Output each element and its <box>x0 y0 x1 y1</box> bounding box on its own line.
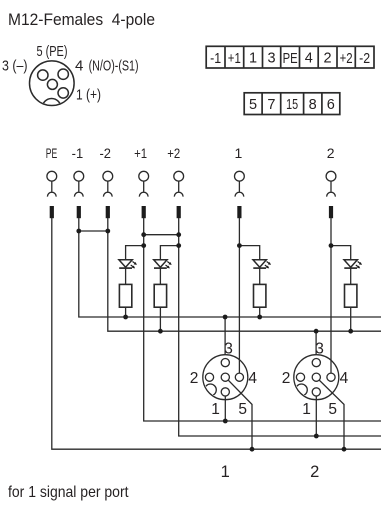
LED V2 emission arrows <box>166 262 172 269</box>
svg-text:1: 1 <box>302 401 311 418</box>
junction dot connector 2 pin 3 on bus <box>314 329 319 334</box>
svg-text:3: 3 <box>224 340 233 357</box>
junction dot -2 link <box>105 229 110 234</box>
terminal 2 plug fork <box>327 181 336 196</box>
junction dot connector 1 pin 3 on bus <box>223 315 228 320</box>
LED V4 <box>344 260 357 268</box>
connector 1 pin 1 circle <box>221 388 229 396</box>
svg-text:4: 4 <box>340 370 349 387</box>
svg-text:8: 8 <box>309 97 317 113</box>
svg-text:2: 2 <box>310 463 319 481</box>
legend pin bottom-right <box>58 88 68 98</box>
svg-text:+2: +2 <box>340 51 353 67</box>
svg-text:4: 4 <box>305 51 313 67</box>
terminal PE socket circle <box>47 171 57 181</box>
svg-text:5: 5 <box>238 401 247 418</box>
connector 2 body circle <box>294 355 339 400</box>
connector 2 wire into pin 4 <box>330 360 332 373</box>
LED V3 emission arrows <box>265 262 271 269</box>
connector 2 pin 1 wire <box>315 396 317 436</box>
terminal 2 socket circle <box>326 171 336 181</box>
resistor R1 <box>119 284 131 307</box>
legend pin center <box>47 79 57 89</box>
terminal PE plug fork <box>47 181 56 196</box>
link wire +1 to +2 y234.7 <box>144 234 179 236</box>
svg-text:7: 7 <box>267 97 275 113</box>
svg-text:+1: +1 <box>134 145 147 161</box>
LED V1 <box>119 260 132 268</box>
branch feed wire to LED V4 <box>331 246 351 260</box>
wire bus to connector 1 pin 3 <box>224 317 226 359</box>
terminal block row 2 labels <box>249 97 335 113</box>
wire LED V4 to resistor R4 <box>350 268 352 284</box>
wire -1 vertical + minus bus 1 y317 <box>79 218 381 317</box>
connector 2 pin 2 circle <box>296 373 304 381</box>
svg-text:PE: PE <box>283 51 298 67</box>
junction dot feed V1 <box>141 243 146 248</box>
junction dot feed V3 <box>237 243 242 248</box>
junction dot R2 on bus <box>158 329 163 334</box>
wire +1 vertical + plus bus 1 y421 <box>144 218 381 421</box>
legend pin top-right <box>58 69 68 79</box>
connector 1 pin 5 diagonal wire <box>228 380 252 449</box>
branch feed wire to LED V3 <box>239 246 259 260</box>
terminal +2 wire entry bar <box>177 206 181 218</box>
connector 2 pin 4 circle <box>327 373 335 381</box>
junction dot R1 on bus <box>123 315 128 320</box>
LED V2 <box>154 260 167 268</box>
terminal +1 socket circle <box>139 171 149 181</box>
svg-text:4: 4 <box>75 58 83 75</box>
svg-text:for 1 signal per port: for 1 signal per port <box>8 484 129 501</box>
link wire -1 to -2 y231 <box>79 230 108 232</box>
connector 1 pin 3 circle <box>221 359 229 367</box>
resistor R4 <box>345 284 357 307</box>
junction dot +2 link <box>176 232 181 237</box>
svg-text:1 (+): 1 (+) <box>76 87 101 104</box>
LED V1 emission arrows <box>131 262 137 269</box>
wire signal 1 vertical to connector 1 pin 4 <box>238 218 240 373</box>
svg-text:2: 2 <box>324 51 332 67</box>
legend keying notch <box>42 99 61 118</box>
svg-text:6: 6 <box>327 97 335 113</box>
svg-text:2: 2 <box>282 370 291 387</box>
connector 2 pin 3 circle <box>312 359 320 367</box>
terminal -2 plug fork <box>103 181 112 196</box>
terminal block row 2 <box>244 93 340 115</box>
M12 female legend connector face <box>30 61 75 106</box>
svg-text:PE: PE <box>46 145 58 161</box>
LED V3 <box>253 260 266 268</box>
wire resistor R4 to bus <box>350 307 352 331</box>
connector 1 keying notch <box>205 384 217 396</box>
terminal 1 wire entry bar <box>237 206 241 218</box>
svg-text:4: 4 <box>248 370 257 387</box>
wire bus to connector 2 pin 3 <box>315 331 317 358</box>
svg-text:3: 3 <box>268 51 276 67</box>
wire LED V3 to resistor R3 <box>259 268 261 284</box>
connector 1 pin 2 circle <box>205 373 213 381</box>
svg-text:15: 15 <box>286 97 298 113</box>
svg-text:5 (PE): 5 (PE) <box>37 43 68 60</box>
svg-text:1: 1 <box>211 401 220 418</box>
svg-text:3: 3 <box>315 340 324 357</box>
svg-text:+2: +2 <box>167 145 180 161</box>
svg-text:(N/O)-(S1): (N/O)-(S1) <box>89 58 139 75</box>
wire resistor R3 to bus <box>259 307 261 317</box>
svg-text:5: 5 <box>249 97 257 113</box>
svg-text:1: 1 <box>235 145 243 161</box>
wire resistor R2 to bus <box>159 307 161 331</box>
branch feed wire to LED V2 <box>160 246 178 260</box>
junction dot connector 1 pin 1 on bus <box>223 419 228 424</box>
legend pin top-left <box>38 70 48 80</box>
svg-text:-2: -2 <box>99 145 111 161</box>
terminal -2 socket circle <box>103 171 113 181</box>
connector 2 pin 1 circle <box>312 388 320 396</box>
terminal -1 plug fork <box>74 181 83 196</box>
terminal +2 plug fork <box>174 181 183 196</box>
wire signal 2 vertical to connector 2 pin 4 <box>330 218 332 373</box>
svg-text:-2: -2 <box>359 51 370 67</box>
terminal +2 socket circle <box>174 171 184 181</box>
terminal 1 socket circle <box>235 171 245 181</box>
connector 1 pin 1 wire <box>224 396 226 421</box>
svg-text:1: 1 <box>249 51 257 67</box>
connector 2 pin 5 diagonal wire <box>319 380 344 449</box>
svg-text:+1: +1 <box>228 51 241 67</box>
svg-text:5: 5 <box>328 401 337 418</box>
junction dot feed V2 <box>176 243 181 248</box>
connector 1 body circle <box>203 355 248 400</box>
terminal +1 plug fork <box>139 181 148 196</box>
terminal block row 1 <box>206 46 374 68</box>
wire resistor R1 to bus <box>125 307 127 317</box>
connector 1 wire into pin 4 <box>238 360 240 373</box>
wire -2 vertical + minus bus 2 y331 <box>108 218 381 331</box>
connector 2 keying notch <box>296 384 308 396</box>
resistor R3 <box>254 284 266 307</box>
terminal -1 socket circle <box>74 171 84 181</box>
svg-text:2: 2 <box>190 370 199 387</box>
terminal -2 wire entry bar <box>106 206 110 218</box>
svg-text:1: 1 <box>221 463 230 481</box>
terminal PE wire entry bar <box>50 206 54 218</box>
svg-text:-1: -1 <box>72 145 84 161</box>
junction dot -1 link <box>76 229 81 234</box>
svg-text:2: 2 <box>327 145 335 161</box>
connector 1 pin 4 circle <box>235 373 243 381</box>
junction dot connector 2 pin 5 on PE bus <box>342 447 347 452</box>
junction dot R4 on bus <box>348 329 353 334</box>
wire LED V2 to resistor R2 <box>159 268 161 284</box>
connector 1 pin 5 circle (center) <box>221 373 229 381</box>
connector 2 pin 5 circle (center) <box>312 373 320 381</box>
LED V4 emission arrows <box>356 262 362 269</box>
wire LED V1 to resistor R1 <box>125 268 127 284</box>
svg-text:-1: -1 <box>210 51 221 67</box>
wire PE vertical + PE bus y449 <box>52 218 381 449</box>
junction dot connector 1 pin 5 on PE bus <box>250 447 255 452</box>
terminal +1 wire entry bar <box>142 206 146 218</box>
junction dot connector 2 pin 1 on bus <box>314 434 319 439</box>
terminal 2 wire entry bar <box>329 206 333 218</box>
junction dot R3 on bus <box>257 315 262 320</box>
svg-text:3 (–): 3 (–) <box>2 58 28 75</box>
junction dot +1 link <box>141 232 146 237</box>
terminal 1 plug fork <box>235 181 244 196</box>
junction dot feed V4 <box>329 243 334 248</box>
branch feed wire to LED V1 <box>126 246 144 260</box>
svg-text:M12-Females 4-pole: M12-Females 4-pole <box>8 10 155 29</box>
wire +2 vertical + plus bus 2 y436 <box>179 218 381 436</box>
resistor R2 <box>154 284 166 307</box>
terminal -1 wire entry bar <box>77 206 81 218</box>
terminal block row 1 labels <box>210 51 370 67</box>
